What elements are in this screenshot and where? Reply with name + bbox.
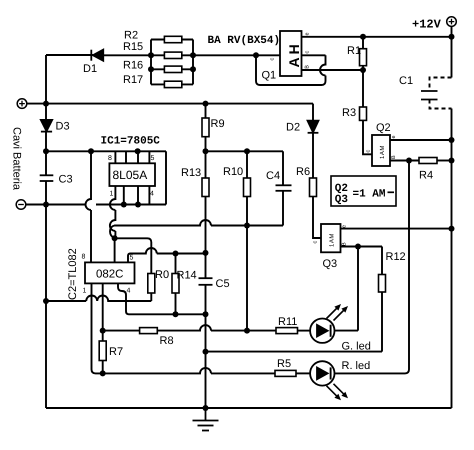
svg-text:R. led: R. led [342,360,371,372]
resistor R7 [99,331,106,374]
svg-text:c: c [313,241,319,244]
node IC1 ground lead junction B [135,202,141,208]
wire D1 to resistor network [103,54,151,56]
svg-text:4: 4 [127,288,131,295]
resistor R1 [360,37,367,70]
wire down to D2 [312,104,314,121]
resistor R0 [148,274,155,302]
svg-text:c: c [270,58,276,61]
svg-text:R13: R13 [181,167,201,179]
node R9 top junction [203,101,209,107]
wire left rail top segment [45,55,47,120]
wire minus terminal to rail [26,204,46,206]
resistor R12 [379,275,386,293]
svg-text:B: B [304,65,310,69]
node IC1 top lead junction [135,148,141,154]
regulator IC1 package 8L05A [109,163,155,186]
diode D2 [308,121,319,133]
wire x91 rail to IC2 pin8 with hop over ground line [86,151,91,262]
svg-text:R2: R2 [124,30,138,42]
svg-text:e: e [304,32,310,35]
ground symbol [193,408,219,431]
svg-text:5: 5 [130,255,134,262]
svg-text:R0: R0 [155,269,169,281]
node R7 bottom junction [100,370,106,376]
wire IC2 pin4 jog lead to R14 C5 bottom line [118,283,206,314]
resistor R9 [202,104,209,152]
wire IC1 top leads [115,151,149,163]
wire IC2 mid top lead [114,238,116,262]
svg-text:D1: D1 [83,63,97,75]
arrows of R.led [327,384,349,401]
svg-text:1AM: 1AM [379,145,386,159]
svg-text:R17: R17 [123,74,143,86]
wire left rail D3 to C3 [45,132,47,176]
svg-text:R8: R8 [160,335,174,347]
svg-text:C3: C3 [59,174,73,186]
battery plus terminal [17,99,27,109]
wire Q1 base to R1 bottom [302,69,364,71]
capacitor C4 [276,151,292,225]
svg-text:D2: D2 [286,122,300,134]
node rail-IC1 input junction [43,148,49,154]
resistor R5 [275,370,296,376]
node Q3 emitter rail junction [449,226,455,232]
wire IC1 pin1 lead down with hops [110,186,115,238]
node R1 top junction [360,34,366,40]
node C5 line junction [203,311,209,317]
wire IC2 lead down to R8 node [102,283,104,330]
node resistor network left bus [150,40,152,85]
wire IC2 pin1 lead down to red led line [92,283,96,373]
svg-text:e: e [391,135,397,138]
node rail-R0 return junction [43,298,49,304]
node ground rail junction [203,405,209,411]
svg-text:R4: R4 [419,170,433,182]
node +12V rail junction [449,34,455,40]
svg-text:R16: R16 [123,60,143,72]
node R9 R13 mid junction [203,148,209,154]
node IC1 line x91 junction [88,148,94,154]
svg-text:AH: AH [286,41,302,67]
node rail-plus junction [43,101,49,107]
wire Q1 emitter to +12V rail [302,36,452,38]
wire red led line [96,368,276,374]
svg-text:R12: R12 [386,251,406,263]
svg-text:B: B [391,155,397,159]
wire R.led to Q2 base rail [335,161,410,374]
power +12V terminal [447,17,457,27]
wire G.led to Q3 base node [335,247,359,331]
svg-text:IC1=7805C: IC1=7805C [101,136,161,148]
node R4 rail junction [449,158,455,164]
wire main plus rail horizontal [46,103,313,105]
wire R10 C4 bottom line with hops [110,220,283,238]
wire network to Q1 collector [193,54,280,56]
svg-text:1: 1 [83,288,87,295]
wire right rail lower [451,109,453,409]
svg-text:Cavi Batteria: Cavi Batteria [11,127,23,191]
svg-text:R5: R5 [277,358,291,370]
svg-text:4: 4 [150,191,154,198]
wire Q3 base to R12 [341,247,383,275]
resistor R17 [151,81,193,87]
node Q2 base junction [406,158,412,164]
wire R0 bottom return to rail with hops [46,296,151,301]
resistor R4 [419,158,452,164]
node R14 bottom junction [173,311,179,317]
resistor R11 [276,328,298,334]
svg-text:c: c [304,51,310,54]
wire Q3 emitter to rail [341,228,452,230]
svg-text:BA RV(BX54): BA RV(BX54) [208,35,281,47]
svg-text:R11: R11 [278,316,297,328]
diode D3 [41,120,52,132]
svg-text:e: e [342,225,348,228]
wire IC1 input line [46,150,166,152]
svg-text:5: 5 [151,155,155,162]
node network left bus wire junction [148,52,154,58]
wire R11 to green led [298,330,311,332]
svg-text:R7: R7 [109,346,123,358]
node R1 bottom junction [360,67,366,73]
svg-text:c: c [366,150,372,153]
svg-text:1: 1 [110,191,114,198]
wire C5 R13 vertical lower segment [205,253,207,408]
wire C5 node to R12 line [206,292,383,352]
wire node A to R0 top [115,238,152,273]
wire right rail upper [451,37,453,78]
svg-text:8L05A: 8L05A [113,168,148,182]
node network left bus R16 junction [148,66,154,72]
LED G.led [310,319,334,343]
resistor R6 [310,178,317,197]
node R14 top junction [173,251,179,257]
svg-text:R6: R6 [296,166,310,178]
svg-text:=1 AM: =1 AM [353,189,386,201]
node IC1 ground lead junction A [121,202,127,208]
svg-text:8: 8 [82,254,86,261]
svg-text:R15: R15 [123,41,143,53]
wire ground line under IC1 [46,204,166,206]
wire bottom rail [46,407,452,409]
wire IC1 bottom leads to ground line [124,186,150,205]
wire Q2 emitter to rail [390,139,452,141]
capacitor C3 [40,175,54,181]
node R10 bottom junction [244,223,250,229]
capacitor C1 with dashed leads [421,78,452,109]
wire R10 node down to green led line [246,226,248,331]
svg-text:C1: C1 [399,75,413,87]
node C5 bottom line junction [203,349,209,355]
resistor R13 [202,151,209,253]
node Q1 collector junction [253,52,259,58]
opamp IC2 package 082C [85,262,135,283]
svg-text:B: B [342,242,348,246]
transistor Q3 package [321,224,341,252]
resistor R16 [151,66,193,72]
resistor R10 [244,151,251,225]
node R8 line left junction [100,328,106,334]
svg-text:Q1: Q1 [262,70,277,82]
wire D2 to R6 [312,133,314,178]
resistor R2 [151,36,193,42]
wire R6 to Q3 collector [313,197,321,239]
svg-text:Q2: Q2 [376,122,391,134]
wire plus terminal to rail [27,103,46,105]
resistor R3 [360,70,373,154]
wire IC2 pin5 line with hop over R0 lead [128,248,206,262]
battery minus terminal [16,200,26,210]
node resistor network right bus [192,40,194,85]
node Q2 emitter rail junction [449,137,455,143]
node Q3 base junction [355,244,361,250]
wire Q1 collector loop with hop over base wire [256,55,326,85]
wire IC1 outer right riser [165,151,167,204]
wire R10 C4 top rail [206,150,284,152]
diode D1 [91,50,103,61]
wire Q2 base to R4 [390,160,419,162]
svg-text:8: 8 [108,155,112,162]
node network right bus wire junction [190,52,196,58]
wire left rail C3 to bottom [45,181,47,408]
svg-text:IC2=TL082: IC2=TL082 [67,248,79,303]
transistor Q2 package [372,135,390,166]
capacitor C5 [199,278,213,285]
node network right bus R16 junction [190,66,196,72]
wire +12V terminal to rail [451,26,453,36]
svg-text:R10: R10 [223,166,243,178]
node A junction dot [112,235,118,241]
transistor Q1 package [280,31,302,76]
svg-text:D3: D3 [56,121,70,133]
svg-text:R14: R14 [177,270,197,282]
svg-text:Q3: Q3 [323,258,338,270]
resistor R15 [151,52,193,58]
node R13 C5 junction [203,250,209,256]
resistor R8 [140,328,158,334]
svg-text:R1: R1 [347,45,361,57]
svg-text:R3: R3 [342,107,356,119]
wire green led line from R8 node [103,325,276,331]
svg-text:+12V: +12V [412,18,442,32]
svg-text:082C: 082C [96,269,124,281]
node R10 top junction [244,148,250,154]
LED R.led [310,361,334,385]
svg-text:1AM: 1AM [329,233,336,247]
svg-text:C5: C5 [216,278,230,290]
wire top-left from rail to D1 [46,54,93,56]
arrows of G.led [327,304,349,321]
node green led line junction [244,328,250,334]
info box Q2 Q3 = 1 AM [331,176,396,206]
svg-text:C4: C4 [266,170,280,182]
svg-text:R9: R9 [211,118,225,130]
junction dots top area [43,34,455,304]
resistor R14 [172,254,179,315]
svg-text:Q3: Q3 [335,194,349,206]
node rail-ground junction [43,202,49,208]
wire R5 to red led [296,372,310,374]
